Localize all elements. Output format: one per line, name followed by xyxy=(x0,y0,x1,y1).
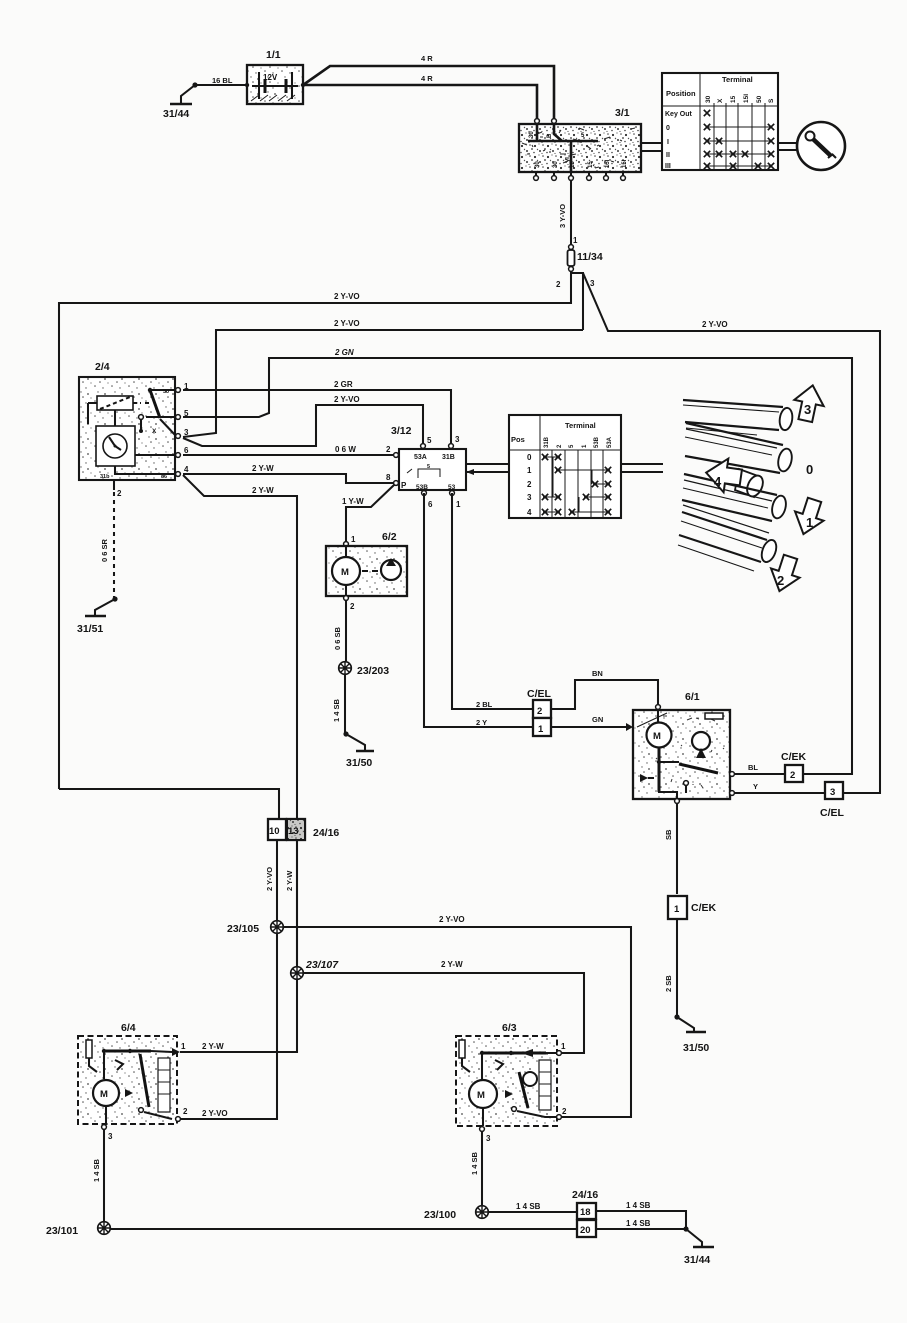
svg-text:30: 30 xyxy=(553,161,559,168)
svg-text:50: 50 xyxy=(756,95,763,103)
svg-text:1 4 SB: 1 4 SB xyxy=(516,1202,541,1211)
svg-text:2 Y-VO: 2 Y-VO xyxy=(265,867,274,891)
svg-text:M: M xyxy=(100,1089,108,1100)
svg-text:M: M xyxy=(653,731,661,742)
svg-text:2 Y-W: 2 Y-W xyxy=(285,870,294,891)
svg-text:3: 3 xyxy=(455,435,460,444)
svg-text:31/44: 31/44 xyxy=(684,1254,710,1266)
svg-text:1: 1 xyxy=(456,500,461,509)
svg-text:2: 2 xyxy=(777,573,784,588)
svg-text:15I: 15I xyxy=(743,94,750,103)
svg-text:1 4 SB: 1 4 SB xyxy=(470,1151,479,1175)
svg-text:2: 2 xyxy=(117,489,122,498)
svg-text:23/105: 23/105 xyxy=(227,923,259,935)
svg-text:31B: 31B xyxy=(544,436,550,448)
svg-text:1 Y-W: 1 Y-W xyxy=(342,497,364,506)
svg-text:1: 1 xyxy=(527,466,532,475)
svg-text:11/34: 11/34 xyxy=(577,251,603,263)
svg-text:II: II xyxy=(666,152,670,159)
svg-text:2 Y: 2 Y xyxy=(476,718,487,727)
svg-text:3 Y-VO: 3 Y-VO xyxy=(558,204,567,228)
svg-text:3: 3 xyxy=(830,787,835,798)
svg-text:5: 5 xyxy=(427,436,432,445)
svg-text:1: 1 xyxy=(806,515,813,530)
svg-text:0: 0 xyxy=(806,462,813,477)
svg-text:4: 4 xyxy=(714,474,722,489)
svg-text:30: 30 xyxy=(163,389,169,395)
svg-text:24/16: 24/16 xyxy=(313,827,339,839)
svg-text:P: P xyxy=(401,481,407,490)
svg-text:3/1: 3/1 xyxy=(615,107,630,119)
svg-text:C/EK: C/EK xyxy=(691,902,717,914)
svg-text:2 SB: 2 SB xyxy=(664,975,673,992)
svg-text:6/2: 6/2 xyxy=(382,531,397,543)
svg-text:15: 15 xyxy=(570,161,576,168)
svg-text:2 Y-VO: 2 Y-VO xyxy=(702,320,728,329)
svg-text:6/3: 6/3 xyxy=(502,1022,517,1034)
svg-text:1: 1 xyxy=(538,724,544,735)
svg-text:15: 15 xyxy=(588,161,594,168)
svg-text:13: 13 xyxy=(288,826,299,837)
svg-text:4: 4 xyxy=(184,465,189,474)
svg-text:0: 0 xyxy=(666,125,670,132)
svg-text:6/4: 6/4 xyxy=(121,1022,136,1034)
svg-text:2: 2 xyxy=(183,1107,188,1116)
svg-text:4 R: 4 R xyxy=(421,54,433,63)
svg-text:SB: SB xyxy=(664,829,673,840)
svg-text:X: X xyxy=(152,428,157,435)
svg-text:0 6 SB: 0 6 SB xyxy=(333,626,342,650)
svg-text:2 GN: 2 GN xyxy=(334,348,354,357)
svg-text:1: 1 xyxy=(184,382,189,391)
svg-text:Position: Position xyxy=(666,89,696,98)
svg-text:B: B xyxy=(547,133,553,138)
svg-text:Key Out: Key Out xyxy=(665,111,693,118)
svg-text:6/1: 6/1 xyxy=(685,691,700,703)
svg-text:2/4: 2/4 xyxy=(95,361,110,373)
svg-text:30: 30 xyxy=(529,131,535,138)
svg-text:2 GR: 2 GR xyxy=(334,380,353,389)
svg-text:III: III xyxy=(665,163,671,170)
svg-text:2: 2 xyxy=(556,280,561,289)
svg-text:31b: 31b xyxy=(100,474,110,480)
svg-text:2 Y-VO: 2 Y-VO xyxy=(202,1109,228,1118)
svg-text:2: 2 xyxy=(537,706,542,717)
svg-text:30: 30 xyxy=(535,161,541,168)
svg-text:0 6 SR: 0 6 SR xyxy=(100,538,109,562)
svg-text:24/16: 24/16 xyxy=(572,1189,598,1201)
svg-text:1: 1 xyxy=(351,535,356,544)
svg-text:2: 2 xyxy=(790,770,795,781)
svg-text:M: M xyxy=(341,567,349,578)
svg-text:1 4 SB: 1 4 SB xyxy=(626,1219,651,1228)
svg-text:I: I xyxy=(667,139,669,146)
svg-text:Terminal: Terminal xyxy=(565,421,596,430)
svg-text:1: 1 xyxy=(561,1042,566,1051)
svg-text:1/1: 1/1 xyxy=(266,49,281,61)
svg-text:53B: 53B xyxy=(594,436,600,448)
svg-text:Y: Y xyxy=(753,782,758,791)
svg-text:M: M xyxy=(477,1090,485,1101)
svg-text:6: 6 xyxy=(184,446,189,455)
svg-text:3: 3 xyxy=(108,1132,113,1141)
svg-text:18: 18 xyxy=(580,1207,591,1218)
svg-text:53B: 53B xyxy=(416,484,428,491)
svg-text:BL: BL xyxy=(748,763,758,772)
svg-text:1: 1 xyxy=(181,1042,186,1051)
svg-text:4: 4 xyxy=(527,508,532,517)
svg-text:2: 2 xyxy=(386,445,391,454)
svg-text:30: 30 xyxy=(705,95,712,103)
svg-text:31/50: 31/50 xyxy=(683,1042,709,1054)
svg-text:15I: 15I xyxy=(605,159,611,168)
svg-text:10: 10 xyxy=(269,826,280,837)
svg-text:53A: 53A xyxy=(414,454,427,461)
svg-text:20: 20 xyxy=(580,1225,591,1236)
svg-text:15: 15 xyxy=(730,95,737,103)
svg-text:2 BL: 2 BL xyxy=(476,700,493,709)
svg-text:2 Y-W: 2 Y-W xyxy=(252,464,274,473)
svg-text:2: 2 xyxy=(527,480,532,489)
svg-text:53A: 53A xyxy=(607,436,613,448)
svg-text:2 Y-VO: 2 Y-VO xyxy=(334,395,360,404)
svg-text:0 6 W: 0 6 W xyxy=(335,445,356,454)
svg-text:2: 2 xyxy=(562,1107,567,1116)
svg-text:2 Y-W: 2 Y-W xyxy=(252,486,274,495)
svg-text:3: 3 xyxy=(590,279,595,288)
svg-text:X: X xyxy=(717,98,724,103)
svg-text:3/12: 3/12 xyxy=(391,425,412,437)
svg-text:C/EK: C/EK xyxy=(781,751,807,763)
svg-text:23/101: 23/101 xyxy=(46,1225,78,1237)
svg-text:53: 53 xyxy=(448,484,456,491)
svg-text:3: 3 xyxy=(804,402,811,417)
svg-text:GN: GN xyxy=(592,715,603,724)
svg-text:3: 3 xyxy=(184,428,189,437)
svg-text:23/100: 23/100 xyxy=(424,1209,456,1221)
svg-text:BN: BN xyxy=(592,669,603,678)
svg-text:2: 2 xyxy=(350,602,355,611)
svg-text:Terminal: Terminal xyxy=(722,75,753,84)
svg-text:23/107: 23/107 xyxy=(305,959,339,971)
svg-text:4 R: 4 R xyxy=(421,74,433,83)
svg-text:3: 3 xyxy=(527,493,532,502)
svg-text:86: 86 xyxy=(161,474,167,480)
svg-text:1 4 SB: 1 4 SB xyxy=(332,698,341,722)
svg-text:16 BL: 16 BL xyxy=(212,76,233,85)
svg-text:C/EL: C/EL xyxy=(820,807,845,819)
svg-text:31B: 31B xyxy=(442,454,455,461)
svg-text:5: 5 xyxy=(184,409,189,418)
svg-text:1 4 SB: 1 4 SB xyxy=(92,1158,101,1182)
svg-text:1: 1 xyxy=(573,236,578,245)
svg-text:2 Y-W: 2 Y-W xyxy=(202,1042,224,1051)
svg-text:2 Y-W: 2 Y-W xyxy=(441,960,463,969)
svg-text:0: 0 xyxy=(527,453,532,462)
svg-text:6: 6 xyxy=(428,500,433,509)
svg-text:2 Y-VO: 2 Y-VO xyxy=(334,292,360,301)
svg-text:S: S xyxy=(768,98,775,103)
svg-text:Pos: Pos xyxy=(511,435,525,444)
svg-text:8: 8 xyxy=(386,473,391,482)
svg-text:3: 3 xyxy=(486,1134,491,1143)
svg-text:5: 5 xyxy=(427,464,430,470)
svg-text:23/203: 23/203 xyxy=(357,665,389,677)
svg-text:31/44: 31/44 xyxy=(163,108,189,120)
svg-text:2 Y-VO: 2 Y-VO xyxy=(334,319,360,328)
svg-text:1: 1 xyxy=(674,904,680,915)
svg-text:15I: 15I xyxy=(622,159,628,168)
svg-text:31/51: 31/51 xyxy=(77,623,103,635)
svg-text:1 4 SB: 1 4 SB xyxy=(626,1201,651,1210)
svg-text:31/50: 31/50 xyxy=(346,757,372,769)
svg-text:2 Y-VO: 2 Y-VO xyxy=(439,915,465,924)
svg-text:C/EL: C/EL xyxy=(527,688,552,700)
